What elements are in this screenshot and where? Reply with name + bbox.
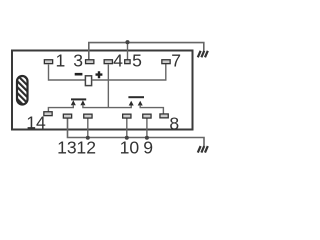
wire left arrow to pin14	[48, 105, 73, 112]
svg-text:9: 9	[143, 137, 153, 157]
junction dot pin10	[125, 136, 129, 140]
contact bar right (NO, gap)	[128, 96, 144, 98]
svg-text:3: 3	[73, 50, 83, 70]
plus sign	[96, 71, 103, 78]
svg-text:12: 12	[76, 137, 96, 157]
wire right arrow to pin8	[140, 105, 163, 114]
pin 7 terminal	[162, 60, 170, 64]
svg-text:4: 4	[113, 50, 123, 70]
coil element box	[85, 76, 91, 86]
wire pin4 down to contacts	[107, 65, 109, 108]
contact bar left (NC, touching)	[71, 98, 86, 100]
junction dot pin9	[145, 136, 149, 140]
wire pin1 down and right to coil	[49, 65, 86, 81]
svg-text:10: 10	[120, 137, 140, 157]
pin 13 terminal	[63, 114, 71, 118]
pin 8 terminal	[160, 114, 168, 118]
coil (hatched capsule)	[17, 76, 28, 105]
svg-text:5: 5	[132, 50, 142, 70]
pin 3 terminal	[86, 60, 94, 64]
movable contact arrow right-1	[129, 101, 134, 106]
svg-text:14: 14	[26, 112, 46, 132]
junction dot pin12	[86, 136, 90, 140]
movable contact arrow left-2	[80, 100, 85, 105]
ground (bottom right)	[198, 146, 208, 153]
relay outline box	[12, 51, 193, 130]
movable contact arrow left-1	[71, 100, 76, 105]
movable contact arrow right-2	[138, 101, 143, 106]
ground (top right)	[198, 51, 208, 58]
pin 14 terminal	[44, 112, 52, 116]
wire pin5 up to ground line	[127, 43, 129, 60]
svg-text:8: 8	[169, 114, 179, 134]
svg-text:7: 7	[171, 50, 181, 70]
wire pin13 down to bottom ground line	[68, 119, 205, 147]
pin 5 terminal	[125, 60, 130, 64]
pin 4 terminal	[104, 60, 112, 64]
minus sign	[75, 73, 83, 76]
wire pin3 up to external ground line	[89, 43, 204, 60]
wire pin9 down	[146, 119, 148, 138]
pin 9 terminal	[143, 114, 151, 118]
wire pin12 down	[87, 119, 89, 138]
wire inner arrows to pin4 (common)	[83, 105, 131, 108]
svg-text:1: 1	[56, 50, 66, 70]
pin 1 terminal	[44, 60, 52, 64]
wire pin10 down	[126, 119, 128, 138]
pin 10 terminal	[123, 114, 131, 118]
svg-text:13: 13	[57, 137, 77, 157]
pin 12 terminal	[84, 114, 92, 118]
junction dot on top ground line	[125, 40, 129, 44]
wire coil to pin7	[92, 63, 166, 80]
